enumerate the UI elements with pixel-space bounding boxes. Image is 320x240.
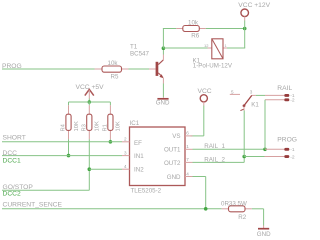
wire T1 emitter to ground (162, 84, 164, 98)
wire R5 to T1 base (129, 68, 150, 70)
svg-text:DCC2: DCC2 (3, 191, 21, 198)
junction node PROG-2 (242, 155, 246, 159)
svg-text:IN2: IN2 (134, 167, 144, 174)
wire coil right horizontal (227, 47, 245, 49)
svg-text:K1: K1 (251, 102, 259, 109)
svg-text:RAIL: RAIL (277, 85, 292, 92)
wire T1 collector up to junction (162, 48, 164, 54)
svg-text:-2: -2 (290, 154, 295, 160)
pin RAIL-1 (265, 93, 295, 99)
wire DCC1 row (2, 155, 122, 157)
svg-text:2: 2 (124, 137, 127, 142)
transistor T1 BC547 (130, 44, 163, 84)
op-amp U1 / ic IC1 TLE5205-2 (122, 120, 193, 195)
wire contact pin3 to RAIL-1 (256, 94, 265, 96)
wire col R4 top (68, 102, 70, 105)
supply VCC +5V arrow (76, 84, 105, 99)
svg-text:OUT2: OUT2 (164, 160, 181, 167)
wire PROG left segment (2, 68, 95, 70)
svg-text:GND: GND (156, 100, 170, 107)
wire OUT1 to RAIL_1 (193, 148, 266, 150)
svg-text:R1: R1 (102, 124, 108, 131)
svg-text:-1: -1 (290, 147, 295, 153)
pin 2 EF (122, 141, 130, 143)
resistor R6 (176, 19, 206, 39)
svg-text:R2: R2 (238, 214, 246, 221)
ground (under T1) (156, 97, 170, 107)
svg-text:SHORT: SHORT (3, 134, 26, 141)
wire R2 right then down (252, 208, 264, 210)
svg-text:VCC +12V: VCC +12V (238, 2, 270, 9)
svg-text:-2: -2 (290, 98, 295, 104)
wire col R3 top (88, 102, 90, 105)
svg-text:OUT1: OUT1 (164, 147, 181, 154)
pin 7 OUT2 (185, 161, 193, 163)
relay coil K1 (193, 39, 233, 70)
wire collector junction to coil left (163, 47, 207, 49)
svg-text:1: 1 (186, 144, 189, 149)
resistor R4 (61, 105, 80, 139)
svg-text:T1: T1 (130, 44, 138, 51)
svg-text:R6: R6 (191, 32, 199, 39)
svg-text:10k: 10k (108, 60, 119, 67)
wire VCC down to VS row (203, 106, 205, 136)
supply VCC (near IC) (198, 88, 212, 106)
junction node R3/IN2 (88, 167, 92, 171)
wire DCC2 row (2, 189, 89, 191)
svg-text:10K: 10K (74, 121, 80, 131)
wire RAIL-2 column down (264, 100, 266, 150)
junction node collector/R6/K1-coil (162, 46, 166, 50)
ground (bottom right) (257, 226, 271, 238)
svg-text:3: 3 (250, 89, 253, 94)
svg-text:RAIL_2: RAIL_2 (204, 156, 225, 163)
svg-text:PROG: PROG (277, 137, 297, 144)
wire SHORT row (2, 141, 122, 143)
svg-text:5: 5 (231, 90, 234, 95)
supply VCC +12V (238, 2, 270, 20)
pin 6 VS (185, 135, 193, 137)
relay contact K1 (230, 89, 260, 110)
svg-text:4: 4 (186, 171, 189, 176)
resistor R3 (81, 105, 100, 139)
resistor R2 (221, 200, 252, 221)
svg-text:BC547: BC547 (130, 51, 149, 58)
wire GND pin right then down (193, 176, 206, 178)
svg-text:1-Pol-UM-12V: 1-Pol-UM-12V (193, 62, 233, 69)
svg-text:TLE5205-2: TLE5205-2 (131, 188, 162, 195)
wire VS row (191, 135, 204, 137)
svg-text:10K: 10K (116, 121, 122, 131)
wire RAIL_2 bend up (243, 157, 245, 163)
svg-text:R3: R3 (81, 124, 87, 131)
wire CURRENT_SENCE row (2, 208, 222, 210)
wire contact pin4 down to PROG-2 junction (243, 111, 245, 157)
svg-text:VCC: VCC (198, 88, 212, 95)
svg-text:1: 1 (225, 44, 227, 48)
svg-text:VS: VS (172, 133, 180, 140)
svg-text:6: 6 (186, 131, 189, 136)
pin RAIL-2 (265, 98, 295, 104)
junction node 5V bus (88, 100, 92, 104)
wire col R1 down to SHORT row (109, 139, 111, 142)
svg-text:10K: 10K (95, 121, 101, 131)
svg-text:IC1: IC1 (130, 120, 140, 127)
pin 4 GND (185, 176, 193, 178)
junction node RAIL_1 / RAIL-2 column (263, 148, 267, 152)
svg-text:GND: GND (167, 174, 181, 181)
wire OUT2 to RAIL_2 (193, 161, 245, 163)
wire 5V bus horizontal (69, 101, 111, 103)
junction node GND/CURRENT_SENCE (204, 207, 208, 211)
svg-text:10k: 10k (188, 19, 199, 26)
wire IN2 branch (89, 168, 122, 170)
wire col R3 down to DCC2 bend (88, 139, 90, 190)
wire 5V stem to bus (88, 99, 90, 103)
junction node R1/SHORT (109, 140, 113, 144)
wire col R4 down to DCC row (68, 139, 70, 155)
svg-text:RAIL_1: RAIL_1 (204, 143, 225, 150)
wire R6 to VCC12 junction (206, 28, 245, 30)
svg-text:EF: EF (134, 140, 142, 147)
pin 1 OUT1 (185, 148, 193, 150)
resistor R5 (95, 60, 129, 81)
wire VCC12 junction down to coil right (244, 29, 246, 49)
svg-text:DCC1: DCC1 (3, 158, 21, 165)
pin PROG-1 (265, 147, 295, 153)
pin 4 IN2 (122, 168, 130, 170)
svg-text:3: 3 (124, 150, 127, 155)
svg-text:GND: GND (257, 231, 271, 238)
svg-text:R4: R4 (61, 123, 67, 131)
wire col R1 top (109, 102, 111, 105)
pin 3 IN1 (122, 155, 130, 157)
wire VCC12 stem to junction (244, 21, 246, 29)
svg-text:4: 4 (124, 164, 127, 169)
svg-text:12: 12 (204, 43, 209, 48)
svg-text:0R33 5W: 0R33 5W (221, 200, 247, 207)
wire junction up to R6 row (162, 29, 164, 49)
svg-text:R5: R5 (111, 74, 119, 81)
svg-text:7: 7 (186, 157, 189, 162)
svg-text:CURRENT_SENCE: CURRENT_SENCE (3, 201, 63, 208)
pin PROG-2 (244, 154, 295, 160)
wire R6 row left segment (163, 28, 176, 30)
junction node R4/DCC1 (67, 154, 71, 158)
svg-text:IN1: IN1 (134, 153, 144, 160)
resistor R1 (102, 105, 121, 139)
junction node VCC+12V column (243, 27, 247, 31)
